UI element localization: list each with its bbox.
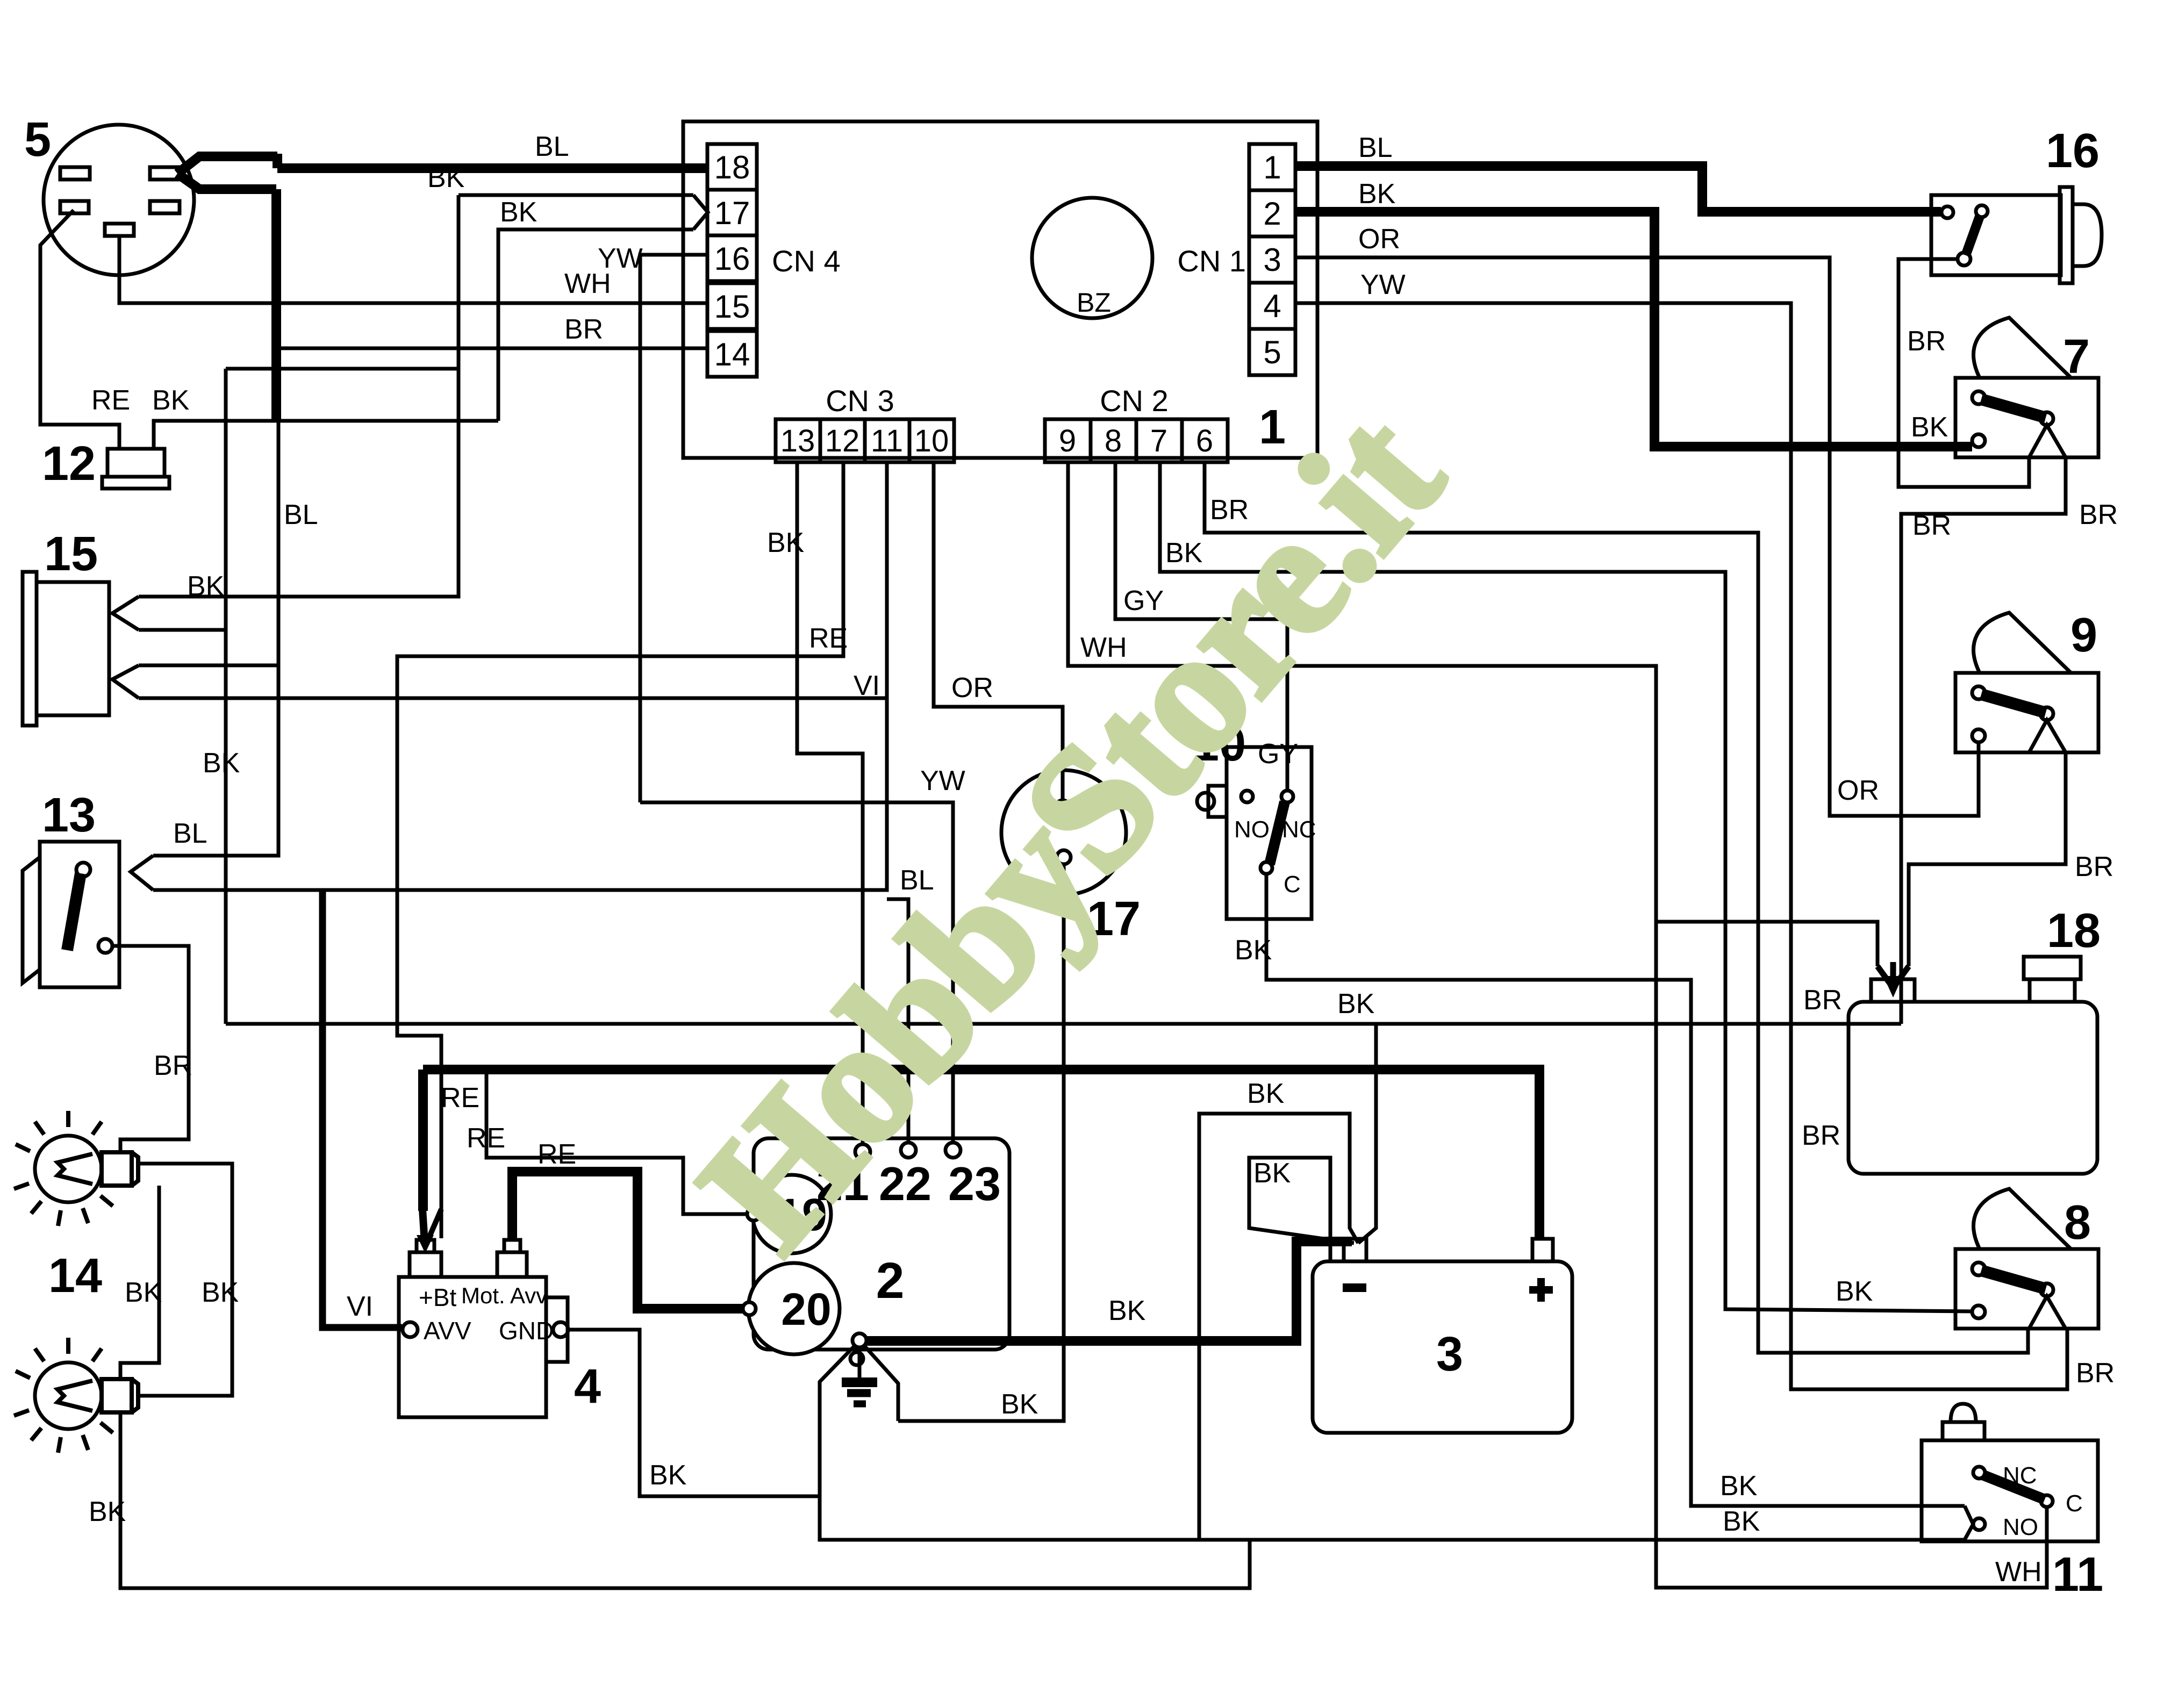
wire VI trunk 13-to-pin11: [153, 462, 887, 890]
buzzer BZ circle: [1032, 198, 1152, 318]
svg-text:CN 2: CN 2: [1100, 384, 1169, 418]
connector CN4: [707, 144, 757, 190]
svg-text:Mot. Avv: Mot. Avv: [461, 1283, 547, 1308]
arrow into 11 NO: [1965, 1506, 1973, 1540]
wire BK pin2 to 7: [1295, 212, 1972, 447]
svg-text:C: C: [1284, 871, 1301, 898]
svg-text:BR: BR: [1802, 1120, 1840, 1151]
battery minus cap: [1344, 1239, 1366, 1261]
svg-text:BR: BR: [1907, 326, 1946, 357]
switch 11 box: [1922, 1440, 2098, 1541]
arrow into tank 18: [1878, 966, 1909, 988]
svg-text:RE: RE: [538, 1139, 576, 1170]
wire GY pin8 to 10: [1115, 462, 1287, 791]
connector CN2: [1045, 419, 1091, 462]
terminals 21 22 23: [855, 1144, 870, 1159]
switch 13 arm: [67, 873, 81, 950]
svg-text:RE: RE: [809, 623, 848, 654]
svg-text:5: 5: [24, 113, 51, 167]
wire bulbs right link BK: [138, 1164, 232, 1396]
svg-text:2: 2: [1263, 196, 1281, 232]
buzzer 12 body: [108, 449, 164, 477]
bulb 14a: [35, 1136, 102, 1202]
wire 5 lower prong BK: [177, 174, 276, 189]
svg-text:BK: BK: [125, 1277, 162, 1308]
tank 18 body: [1848, 1002, 2097, 1174]
svg-text:7: 7: [2063, 330, 2090, 384]
wire GND east: [568, 1330, 820, 1496]
wire BK 12-to-pin17: [154, 421, 498, 449]
wire BK pin17-to-15: [139, 195, 458, 597]
svg-text:BL: BL: [535, 131, 569, 162]
svg-text:16: 16: [2046, 124, 2099, 178]
control unit 1 box: [683, 121, 1317, 458]
svg-text:10: 10: [914, 424, 949, 458]
starter 4 MotAvv cap: [497, 1252, 527, 1277]
wire YW pin16 to 23: [640, 802, 953, 1143]
arrow into 15 lower: [112, 665, 139, 698]
switch 11 pins: [1973, 1467, 1985, 1479]
wire BL 13 to 22: [887, 899, 908, 1143]
wire OR pin10 to 17: [934, 462, 1063, 801]
switch 13 box: [40, 842, 119, 987]
svg-text:23: 23: [948, 1157, 1001, 1210]
wire 9 common to tank: [1909, 752, 2066, 966]
svg-text:BR: BR: [564, 314, 603, 345]
speaker 15 body: [37, 582, 109, 715]
svg-text:OR: OR: [1358, 224, 1400, 255]
svg-text:6: 6: [1196, 424, 1213, 458]
wire RE thick trunk: [423, 1070, 1539, 1240]
wire BK 10C to 11 upper: [1266, 874, 1965, 1506]
svg-text:BL: BL: [284, 499, 318, 530]
svg-text:BK: BK: [1358, 178, 1396, 210]
key contact mid-left: [60, 201, 89, 213]
svg-text:BL: BL: [173, 818, 207, 849]
svg-text:14: 14: [48, 1249, 102, 1303]
switch 10 box: [1227, 747, 1312, 919]
svg-text:VI: VI: [854, 670, 880, 701]
svg-text:VI: VI: [347, 1291, 373, 1322]
svg-text:NO: NO: [1234, 816, 1270, 843]
wire BL 5-to-18: [177, 156, 277, 174]
svg-text:BR: BR: [2076, 1358, 2115, 1389]
svg-text:BK: BK: [1001, 1389, 1038, 1420]
switch 11 arm: [1982, 1475, 2045, 1499]
wire RE pin12 west: [397, 462, 843, 1238]
tank 18 left neck: [1871, 979, 1915, 1002]
speaker 15 flange: [23, 572, 37, 726]
circle 19: [753, 1175, 831, 1253]
svg-text:BL: BL: [1358, 132, 1393, 163]
key contact bottom-center: [105, 224, 134, 236]
svg-text:OR: OR: [1837, 775, 1879, 806]
svg-text:BK: BK: [1911, 412, 1948, 443]
wire bulb2 bottom trunk BK: [120, 1412, 1250, 1588]
ignition switch 5 circle: [44, 125, 194, 275]
connector CN3: [776, 419, 820, 462]
pedal switch 8: [1974, 1189, 2071, 1249]
wire RE thick to 20: [512, 1172, 743, 1309]
svg-text:RE: RE: [91, 385, 130, 416]
jumper B over battery: [1249, 1158, 1354, 1261]
tank 18 right cap: [2024, 957, 2081, 979]
svg-text:16: 16: [714, 241, 750, 277]
arrow into starter +Bt: [418, 1070, 428, 1211]
svg-text:BR: BR: [1912, 510, 1951, 541]
svg-text:AVV: AVV: [424, 1317, 471, 1345]
switch 10 plunger: [1208, 786, 1227, 817]
svg-text:CN 3: CN 3: [826, 384, 894, 418]
svg-text:3: 3: [1436, 1327, 1463, 1381]
arrow into 13 upper: [131, 856, 153, 890]
wire RE 5-to-12: [40, 210, 119, 449]
svg-text:YW: YW: [920, 765, 965, 796]
wire BR pin14-to-13 upper: [153, 348, 707, 856]
svg-text:15: 15: [44, 527, 98, 581]
wire 13 lower to bulb: [112, 946, 189, 1152]
pedal switch 7: [1974, 318, 2071, 378]
svg-text:BZ: BZ: [1077, 288, 1111, 318]
wire VI branch to AVV: [323, 890, 402, 1327]
svg-text:3: 3: [1263, 242, 1281, 278]
wire YW pin4 to 8 tent-right: [1295, 303, 2067, 1389]
key contact top-left: [60, 167, 90, 180]
svg-text:11: 11: [871, 424, 903, 458]
wire BK pin13 to 21: [797, 462, 863, 1145]
svg-text:NC: NC: [2003, 1462, 2037, 1489]
svg-text:BK: BK: [1720, 1470, 1758, 1502]
wire BL pin1 to 16: [1295, 166, 1941, 212]
svg-text:RE: RE: [441, 1082, 479, 1114]
svg-text:18: 18: [2047, 904, 2101, 958]
wire BK pin7 to 8: [1160, 462, 1972, 1311]
lamp 16 pins: [1941, 206, 1953, 218]
svg-text:12: 12: [42, 437, 96, 491]
switch 13 pins: [76, 863, 90, 877]
relay 17 pins: [1056, 800, 1070, 814]
wire bulbs left link BK: [120, 1186, 159, 1379]
lamp 16 dome: [2073, 204, 2102, 266]
svg-text:RE: RE: [467, 1123, 505, 1154]
wire WH pin9: [1068, 462, 2047, 1588]
battery plus cap: [1532, 1239, 1553, 1261]
svg-text:BK: BK: [1337, 988, 1375, 1020]
svg-text:NC: NC: [1282, 816, 1316, 843]
svg-text:12: 12: [825, 424, 860, 458]
svg-text:OR: OR: [951, 672, 993, 704]
svg-text:NO: NO: [2003, 1514, 2038, 1540]
svg-text:BK: BK: [89, 1496, 126, 1527]
svg-text:4: 4: [1263, 288, 1281, 324]
wire YW pin16 down: [640, 255, 707, 802]
wire BK 17-bottom to ground line: [898, 864, 1064, 1421]
svg-text:BK: BK: [767, 527, 805, 558]
svg-text:CN 4: CN 4: [772, 244, 841, 278]
svg-text:17: 17: [714, 195, 750, 231]
key contact mid-right: [150, 201, 180, 213]
svg-text:BK: BK: [1108, 1295, 1146, 1326]
svg-text:4: 4: [574, 1360, 601, 1413]
wire BK 15 trunk riser: [139, 628, 226, 632]
circle 20: [748, 1263, 840, 1354]
svg-text:11: 11: [2052, 1548, 2103, 1602]
svg-text:2: 2: [876, 1252, 905, 1309]
svg-text:BK: BK: [500, 197, 538, 228]
svg-text:18: 18: [714, 149, 750, 185]
switch 10 arm: [1270, 802, 1285, 864]
lamp 16 switch arm: [1966, 215, 1980, 255]
starter 4 side tab: [546, 1297, 568, 1362]
wire BR pin6 to 8 tent-left: [1205, 462, 2028, 1353]
arrow into 15 upper: [112, 597, 139, 630]
svg-text:14: 14: [714, 336, 750, 372]
svg-text:BK: BK: [1253, 1158, 1291, 1189]
svg-text:9: 9: [2070, 608, 2097, 662]
svg-text:13: 13: [780, 424, 815, 458]
svg-text:WH: WH: [1995, 1556, 2042, 1588]
svg-text:BR: BR: [154, 1050, 192, 1081]
ground symbol: [858, 1347, 862, 1379]
wire WH 5-to-15: [119, 236, 707, 303]
wire WH branch to tank: [1656, 922, 1878, 966]
svg-text:BK: BK: [1235, 935, 1272, 966]
svg-text:BK: BK: [203, 748, 240, 779]
bulb 14b: [35, 1362, 102, 1429]
wire OR pin3 to 9: [1295, 257, 1979, 816]
svg-text:13: 13: [42, 788, 96, 842]
svg-text:1: 1: [1263, 149, 1281, 185]
svg-text:BK: BK: [187, 571, 225, 602]
ground tent left to 11 NO: [820, 1346, 1965, 1540]
key contact top-right: [150, 167, 180, 180]
svg-text:BK: BK: [1723, 1506, 1760, 1537]
svg-text:CN 1: CN 1: [1177, 244, 1246, 278]
svg-text:BR: BR: [2079, 499, 2118, 530]
wire BK engine to battery minus: [866, 1241, 1352, 1341]
svg-text:20: 20: [781, 1284, 831, 1334]
pedal switch 9: [1974, 613, 2071, 673]
svg-text:BK: BK: [1247, 1078, 1285, 1109]
ground tent right: [864, 1346, 898, 1421]
svg-text:8: 8: [1105, 424, 1122, 458]
wire 7 common to BK trunk: [1901, 457, 2066, 1024]
svg-text:BK: BK: [427, 162, 465, 193]
starter 4 pins: [403, 1322, 418, 1337]
engine 2 box: [754, 1138, 1009, 1350]
relay 17 circle: [1001, 770, 1126, 895]
wire 16 bottom to 7 tent-left: [1898, 259, 2029, 487]
connector CN1: [1249, 144, 1295, 190]
ground pin: [850, 1352, 863, 1365]
svg-text:GND: GND: [499, 1317, 554, 1345]
svg-text:YW: YW: [1360, 269, 1406, 300]
lamp 16 box: [1931, 195, 2061, 275]
arrowhead into pin 17: [458, 193, 693, 197]
switch 13 flap: [23, 857, 40, 983]
svg-text:9: 9: [1059, 424, 1076, 458]
svg-text:C: C: [2066, 1490, 2083, 1517]
starter 4 box: [399, 1277, 546, 1417]
wire BK vertical x937 to pin17: [498, 229, 693, 421]
svg-text:5: 5: [1263, 334, 1281, 370]
switch 11 plunger: [1943, 1422, 1984, 1440]
switch 10 pins: [1241, 791, 1253, 802]
battery 3 body: [1313, 1261, 1572, 1433]
watermark HobbyStore.it: [662, 376, 1480, 1286]
svg-text:YW: YW: [598, 243, 643, 274]
svg-text:BK: BK: [152, 385, 190, 416]
svg-text:+Bt: +Bt: [419, 1283, 457, 1311]
svg-text:BR: BR: [2075, 851, 2113, 882]
svg-text:BK: BK: [649, 1460, 687, 1491]
lamp 16 lens bar: [2060, 187, 2073, 283]
svg-text:BR: BR: [1803, 985, 1842, 1016]
starter 4 +Bt cap: [410, 1252, 441, 1277]
svg-text:BK: BK: [1836, 1276, 1873, 1307]
wire 15 lower prong long: [139, 697, 887, 700]
wire RE to 19: [486, 1070, 747, 1214]
wire 15 lower prong to BL: [139, 664, 278, 668]
svg-text:BK: BK: [202, 1277, 239, 1308]
svg-text:8: 8: [2064, 1196, 2091, 1250]
svg-text:15: 15: [714, 289, 750, 325]
jumper A over battery: [1199, 1114, 1358, 1540]
svg-text:7: 7: [1150, 424, 1167, 458]
